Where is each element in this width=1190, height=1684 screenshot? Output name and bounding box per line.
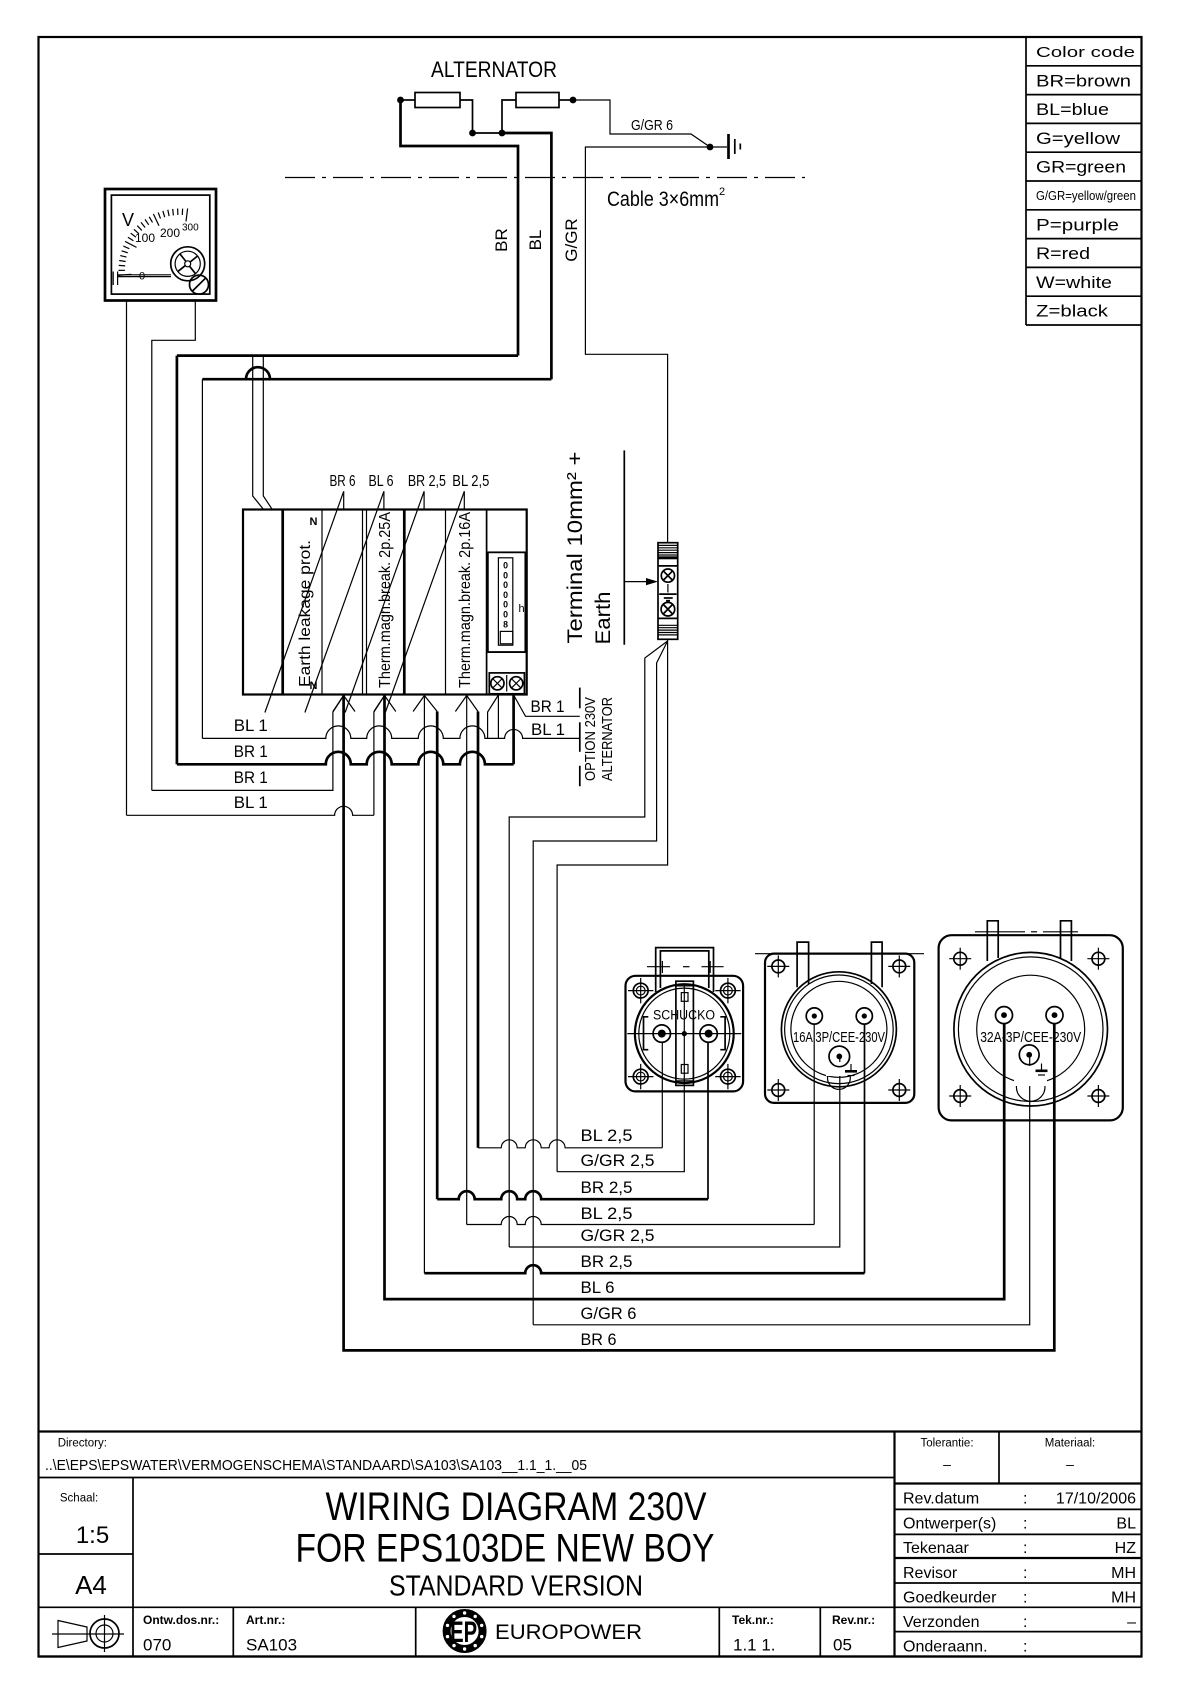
svg-text:0: 0 [503, 610, 508, 620]
svg-text:BR 2,5: BR 2,5 [581, 1178, 633, 1197]
wire BR horizontal run [177, 354, 518, 357]
schucko socket well [635, 981, 734, 1085]
svg-text:2: 2 [719, 186, 725, 198]
svg-text:BR 2,5: BR 2,5 [408, 473, 446, 490]
panel divider 3b [366, 510, 368, 695]
svg-text:Terminal 10mm² +: Terminal 10mm² + [564, 452, 587, 644]
terminal entry marks T4 [455, 696, 466, 712]
svg-text:BL 2,5: BL 2,5 [452, 473, 489, 490]
svg-text::: : [1023, 1614, 1027, 1631]
node winding junction B [499, 130, 506, 137]
svg-text:17/10/2006: 17/10/2006 [1056, 1491, 1136, 1508]
wire winding W1 right lead [460, 100, 473, 133]
svg-text:GR=green: GR=green [1036, 158, 1126, 177]
svg-text:Ontw.dos.nr.:: Ontw.dos.nr.: [143, 1613, 219, 1627]
wire winding junction link [473, 132, 503, 134]
svg-text:MH: MH [1111, 1565, 1136, 1582]
node alternator right terminal [570, 97, 577, 104]
16A pin right [856, 1008, 872, 1024]
svg-text:G/GR 2,5: G/GR 2,5 [581, 1226, 655, 1245]
terminal entry marks T1 [333, 696, 344, 712]
node winding junction A [469, 130, 476, 137]
svg-text::: : [1023, 1565, 1027, 1582]
svg-text:–: – [943, 1456, 951, 1472]
panel divider 3a [362, 510, 364, 695]
hour counter U2 [487, 552, 527, 652]
svg-text:ALTERNATOR: ALTERNATOR [431, 57, 557, 82]
svg-text:Tolerantie:: Tolerantie: [920, 1438, 973, 1450]
svg-text:–: – [1127, 1614, 1136, 1631]
panel divider thick mid [403, 510, 406, 695]
panel divider 5 [445, 510, 447, 695]
svg-text:Earth: Earth [592, 592, 615, 645]
svg-text:Onderaann.: Onderaann. [903, 1639, 988, 1656]
wire BR drop into panel N right [263, 356, 272, 510]
terminal entry marks T2 [374, 696, 385, 712]
wire BL 6 feed [385, 696, 1005, 1300]
pointer slash BR 6 [265, 491, 344, 712]
svg-text:Directory:: Directory: [58, 1438, 107, 1450]
svg-text:N: N [310, 516, 318, 528]
hour counter terminal screws [489, 673, 524, 694]
schucko centerline horizontal [627, 1033, 741, 1035]
wire BR 6 feed [344, 696, 1055, 1351]
wire screws box left tap diagonal [488, 695, 499, 738]
32A corner screws [949, 948, 1109, 1107]
color code table [1026, 37, 1142, 325]
wire BR from alternator [401, 100, 519, 356]
svg-text:OPTION 230V: OPTION 230V [582, 697, 599, 781]
svg-text:STANDARD VERSION: STANDARD VERSION [389, 1571, 643, 1603]
schucko center point [682, 1031, 687, 1036]
svg-text:32A-3P/CEE-230V: 32A-3P/CEE-230V [980, 1029, 1081, 1046]
svg-text:BR 6: BR 6 [581, 1330, 617, 1349]
svg-text:Art.nr.:: Art.nr.: [246, 1613, 285, 1627]
wire BR1 thick loop [176, 356, 179, 765]
svg-text:Schaal:: Schaal: [60, 1493, 98, 1505]
arrow to terminal block [624, 581, 648, 583]
title block frame [39, 1432, 1142, 1657]
alternator winding W2 [516, 93, 559, 108]
wire G/GR 6 32A [533, 1055, 1029, 1325]
breaker panel box [243, 510, 527, 695]
schucko pin right [700, 1025, 717, 1042]
svg-text:0: 0 [503, 561, 508, 571]
pointer slash BR 2,5 [345, 491, 424, 712]
32A pin right [1046, 1007, 1063, 1024]
svg-text:1:5: 1:5 [76, 1522, 109, 1549]
svg-text:BR: BR [492, 228, 511, 252]
svg-text:Z=black: Z=black [1036, 302, 1109, 321]
svg-text:FOR EPS103DE NEW BOY: FOR EPS103DE NEW BOY [296, 1527, 715, 1571]
svg-text:0: 0 [503, 590, 508, 600]
svg-text:V: V [122, 210, 134, 230]
wire earth branch 2 [533, 641, 667, 1325]
pointer slash BL 6 [305, 491, 384, 712]
svg-text:R=red: R=red [1036, 244, 1090, 263]
svg-text:BL 6: BL 6 [581, 1278, 615, 1297]
svg-text:EUROPOWER: EUROPOWER [495, 1621, 642, 1644]
16A pin earth [829, 1046, 850, 1067]
wire BL 2,5 second feed [466, 696, 468, 1225]
svg-text:Materiaal:: Materiaal: [1045, 1438, 1096, 1450]
svg-text:8: 8 [503, 619, 508, 629]
wire winding W2 right lead [559, 99, 573, 101]
svg-text:Therm.magn.break. 2p.16A: Therm.magn.break. 2p.16A [457, 511, 474, 688]
svg-text:G/GR: G/GR [562, 218, 581, 261]
svg-text:BL 1: BL 1 [234, 793, 268, 812]
svg-text:BR 2,5: BR 2,5 [581, 1252, 633, 1271]
svg-text:BR 6: BR 6 [330, 473, 356, 490]
16A corner screws [767, 955, 910, 1101]
europower logo [446, 1611, 484, 1650]
wire winding W1 left lead [401, 99, 416, 101]
svg-text:BL 1: BL 1 [234, 716, 268, 735]
wire alternator earth to ground [573, 100, 727, 147]
option bracket bar 1 [579, 688, 581, 709]
voltmeter V1 [105, 189, 216, 301]
svg-text:Revisor: Revisor [903, 1565, 958, 1582]
wire BL from alternator [502, 133, 551, 379]
svg-text:P=purple: P=purple [1036, 215, 1119, 234]
wire G/GR earth run [585, 147, 710, 543]
svg-text:BL: BL [526, 230, 545, 251]
16A pin left [806, 1008, 822, 1024]
svg-text:Cable 3×6mm: Cable 3×6mm [607, 188, 719, 211]
svg-text:..\E\EPS\EPSWATER\VERMOGENSCHE: ..\E\EPS\EPSWATER\VERMOGENSCHEMA\STANDAA… [45, 1457, 587, 1474]
32A socket well [954, 952, 1108, 1106]
panel divider 2 [321, 510, 323, 695]
svg-text:300: 300 [182, 223, 199, 234]
svg-text:G/GR 6: G/GR 6 [581, 1304, 637, 1323]
wire G/GR 2,5 schucko [557, 1034, 684, 1172]
terminal label underline [623, 450, 625, 644]
wire winding W2 left lead [502, 100, 516, 133]
svg-text:0: 0 [503, 600, 508, 610]
svg-text:BL 1: BL 1 [531, 720, 565, 739]
node earth junction [707, 144, 714, 151]
dash-dot separator line [285, 177, 805, 179]
32A earth mark [1036, 1064, 1048, 1076]
wire earth branch 1 [509, 641, 667, 1247]
svg-text:200: 200 [160, 226, 180, 240]
svg-text::: : [1023, 1540, 1027, 1557]
panel divider 6 [486, 510, 488, 695]
svg-text:–: – [1066, 1456, 1074, 1472]
svg-text::: : [1023, 1639, 1027, 1656]
svg-text:h: h [519, 603, 525, 615]
svg-text:Rev.datum: Rev.datum [903, 1491, 979, 1508]
svg-text:SA103: SA103 [246, 1636, 297, 1655]
svg-text::: : [1023, 1491, 1027, 1508]
svg-text:BL=blue: BL=blue [1036, 100, 1109, 119]
svg-text:070: 070 [143, 1636, 171, 1655]
svg-text:Tek.nr.:: Tek.nr.: [732, 1613, 774, 1627]
svg-text:Color code: Color code [1036, 44, 1135, 61]
svg-text::: : [1023, 1516, 1027, 1533]
svg-text:G/GR 2,5: G/GR 2,5 [581, 1151, 655, 1170]
svg-text:BL 6: BL 6 [369, 473, 394, 490]
svg-text:W=white: W=white [1036, 273, 1112, 292]
schucko socket J1 [626, 948, 744, 1092]
16A earth mark [845, 1064, 857, 1076]
svg-text:BL 2,5: BL 2,5 [581, 1204, 633, 1223]
svg-text:Goedkeurder: Goedkeurder [903, 1590, 997, 1607]
16A socket well [781, 972, 896, 1090]
svg-text::: : [1023, 1590, 1027, 1607]
svg-text:HZ: HZ [1115, 1540, 1137, 1557]
pointer slash BL 2,5 [385, 491, 464, 712]
schucko pin left [653, 1025, 670, 1042]
wire earth branch 3 [557, 639, 668, 1171]
svg-text:BR 1: BR 1 [234, 768, 268, 787]
schucko centerline vertical [683, 985, 685, 1034]
32A CEE socket J3 [939, 921, 1123, 1121]
panel divider thick left [281, 510, 284, 695]
svg-text:Tekenaar: Tekenaar [903, 1540, 969, 1557]
svg-text:05: 05 [833, 1636, 852, 1655]
schucko corner screws [628, 978, 741, 1089]
node alternator left terminal [397, 97, 404, 104]
16A CEE socket J2 [755, 942, 924, 1103]
svg-text:A4: A4 [75, 1570, 107, 1600]
svg-text:0: 0 [503, 570, 508, 580]
svg-text:Rev.nr.:: Rev.nr.: [832, 1613, 875, 1627]
svg-text:G=yellow: G=yellow [1036, 129, 1121, 148]
wire voltmeter left terminal down [126, 301, 128, 816]
svg-text:G/GR=yellow/green: G/GR=yellow/green [1036, 189, 1136, 203]
svg-text:BL 2,5: BL 2,5 [581, 1126, 633, 1145]
wire BR 2,5 second feed [423, 696, 425, 1274]
terminal entry marks T3 [413, 696, 424, 712]
projection symbol [52, 1615, 124, 1652]
wire option BR 1 [514, 695, 580, 716]
svg-text:G/GR 6: G/GR 6 [631, 117, 673, 134]
svg-text:16A 3P/CEE-230V: 16A 3P/CEE-230V [793, 1029, 885, 1046]
svg-text:BR=brown: BR=brown [1036, 71, 1131, 90]
wire BL1 run [201, 379, 203, 738]
svg-text:BR 1: BR 1 [234, 742, 268, 761]
32A pin left [996, 1007, 1013, 1024]
svg-text:ALTERNATOR: ALTERNATOR [599, 697, 616, 781]
svg-text:BR 1: BR 1 [531, 697, 565, 716]
revision table texts [903, 1491, 1136, 1656]
alternator winding W1 [415, 93, 460, 108]
wire BL horizontal run with hop [202, 367, 551, 379]
wire BR 2,5 first feed [436, 712, 439, 1200]
svg-text:1.1 1.: 1.1 1. [733, 1636, 776, 1655]
svg-text:100: 100 [135, 231, 155, 245]
ground symbol [729, 134, 741, 159]
svg-text:MH: MH [1111, 1590, 1136, 1607]
wire BR drop into panel N left [253, 356, 264, 510]
32A pin earth [1019, 1045, 1039, 1065]
svg-text:BL: BL [1116, 1516, 1136, 1533]
wire BR1 second from voltmeter [152, 696, 344, 791]
svg-text:Verzonden: Verzonden [903, 1614, 980, 1631]
option bracket bar 3 [579, 766, 581, 786]
svg-text:EP: EP [450, 1616, 477, 1649]
wire BL 2,5 first feed [477, 712, 480, 1148]
wire G/GR 2,5 16A [509, 1056, 840, 1247]
terminal block X1 [658, 543, 678, 640]
svg-text:WIRING DIAGRAM 230V: WIRING DIAGRAM 230V [326, 1485, 707, 1529]
svg-text:Ontwerper(s): Ontwerper(s) [903, 1516, 996, 1533]
wire voltmeter right terminal down [152, 301, 196, 791]
option bracket bar 2 [579, 722, 581, 752]
svg-text:0: 0 [503, 580, 508, 590]
wire option BL 1 [497, 695, 499, 738]
wire BL1 second from voltmeter [127, 806, 374, 815]
